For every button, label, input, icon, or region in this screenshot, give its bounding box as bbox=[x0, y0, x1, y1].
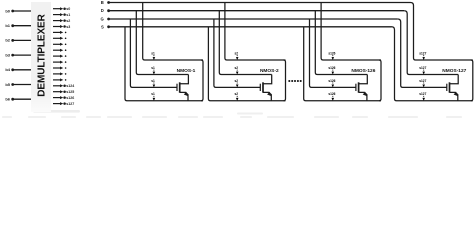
svg-text:b1: b1 bbox=[5, 23, 10, 28]
svg-text:s2: s2 bbox=[235, 51, 239, 55]
svg-text:s1: s1 bbox=[151, 66, 155, 70]
input b1 bbox=[5, 23, 31, 28]
wire B drop to NMOS-1 row bbox=[143, 3, 203, 61]
demux output tick 5 bbox=[53, 37, 66, 40]
net label s127 marker on NMOS-127 row A bbox=[419, 51, 426, 60]
svg-text:s3: s3 bbox=[66, 25, 70, 29]
demux output s126 bbox=[53, 96, 74, 100]
demux output tick 8 bbox=[53, 55, 66, 58]
demux output s127 bbox=[53, 102, 74, 106]
demux output tick 12 bbox=[53, 78, 66, 81]
net label s2 marker on NMOS-2 row A bbox=[235, 51, 239, 60]
svg-text:s0: s0 bbox=[66, 7, 70, 11]
demux output s0 bbox=[53, 7, 70, 11]
wire G drop to NMOS-127 row bbox=[398, 19, 447, 87]
demux output s125 bbox=[53, 90, 74, 94]
svg-text:D: D bbox=[101, 8, 104, 13]
net label s1 marker on NMOS-1 row A bbox=[151, 51, 155, 60]
svg-text:s127: s127 bbox=[66, 102, 74, 106]
svg-text:s2: s2 bbox=[235, 92, 239, 96]
demux output s3 bbox=[53, 25, 70, 29]
svg-text:B: B bbox=[101, 0, 104, 5]
svg-text:b5: b5 bbox=[5, 82, 10, 87]
svg-text:s126: s126 bbox=[66, 96, 74, 100]
svg-text:b2: b2 bbox=[5, 38, 10, 43]
svg-text:s126: s126 bbox=[328, 66, 335, 70]
demux output s2 bbox=[53, 19, 70, 23]
input b2 bbox=[5, 38, 31, 43]
wire D drop to NMOS-2 row bbox=[219, 11, 271, 75]
rail B / node B bbox=[101, 0, 411, 5]
wire D drop to NMOS-127 row bbox=[404, 11, 458, 75]
wire right side wrap of NMOS-126 bbox=[379, 60, 381, 101]
input b5 bbox=[5, 82, 31, 87]
svg-text:S: S bbox=[101, 24, 104, 29]
input b6 bbox=[5, 97, 31, 102]
input b3 bbox=[5, 52, 31, 57]
net label s126 marker on NMOS-126 row D bbox=[328, 66, 335, 75]
wire B drop to NMOS-127 row bbox=[411, 3, 473, 61]
transistor Q2 (NMOS-2 device) bbox=[260, 75, 271, 101]
svg-text:G: G bbox=[101, 17, 104, 22]
rail G / node G bbox=[101, 17, 398, 22]
wire G drop to NMOS-2 row bbox=[214, 19, 260, 87]
svg-text:s1: s1 bbox=[66, 13, 70, 17]
net label s2 marker on NMOS-2 row G bbox=[235, 79, 239, 88]
svg-text:s2: s2 bbox=[235, 66, 239, 70]
demux output tick 4 bbox=[53, 31, 66, 34]
svg-text:s1: s1 bbox=[151, 92, 155, 96]
net label s1 marker on NMOS-1 row G bbox=[151, 79, 155, 88]
net label s126 marker on NMOS-126 row S bbox=[328, 92, 335, 101]
transistor Q3 (NMOS-126 device) bbox=[356, 75, 367, 101]
svg-text:b4: b4 bbox=[5, 67, 10, 72]
svg-text:DEMULTIPLEXER: DEMULTIPLEXER bbox=[36, 13, 47, 96]
svg-text:s127: s127 bbox=[419, 92, 426, 96]
wire D drop to NMOS-126 row bbox=[315, 11, 367, 75]
svg-text:NMOS-126: NMOS-126 bbox=[351, 68, 375, 74]
wire G drop to NMOS-126 row bbox=[310, 19, 356, 87]
wire B drop to NMOS-126 row bbox=[321, 3, 381, 61]
transistor Q4 (NMOS-127 device) bbox=[447, 75, 458, 101]
demux output tick 10 bbox=[53, 67, 66, 70]
demultiplexer U1 bbox=[31, 2, 51, 112]
svg-text:s127: s127 bbox=[419, 66, 426, 70]
net label s127 marker on NMOS-127 row G bbox=[419, 79, 426, 88]
svg-text:s1: s1 bbox=[151, 79, 155, 83]
svg-text:s127: s127 bbox=[419, 51, 426, 55]
svg-text:NMOS-2: NMOS-2 bbox=[260, 68, 279, 74]
net label s1 marker on NMOS-1 row D bbox=[151, 66, 155, 75]
wire S drop to NMOS-127 row bbox=[392, 27, 473, 101]
demux output tick 7 bbox=[53, 49, 66, 52]
demux output tick 6 bbox=[53, 43, 66, 46]
wire S drop to NMOS-1 row bbox=[125, 27, 203, 101]
svg-text:s126: s126 bbox=[328, 92, 335, 96]
wire S drop to NMOS-2 row bbox=[208, 27, 285, 101]
ellipsis dots (continuation) bbox=[288, 80, 302, 82]
net label s126 marker on NMOS-126 row A bbox=[328, 51, 335, 60]
svg-text:NMOS-1: NMOS-1 bbox=[177, 68, 196, 74]
input b0 bbox=[5, 8, 31, 13]
svg-text:s2: s2 bbox=[66, 19, 70, 23]
transistor Q1 (NMOS-1 device) bbox=[177, 75, 188, 101]
demux output s1 bbox=[53, 13, 70, 17]
net label s127 marker on NMOS-127 row D bbox=[419, 66, 426, 75]
wire S drop to NMOS-126 row bbox=[304, 27, 381, 101]
wire right side wrap of NMOS-127 bbox=[471, 60, 473, 101]
svg-text:s1: s1 bbox=[151, 51, 155, 55]
rail D / node D bbox=[101, 8, 404, 13]
wire right side wrap of NMOS-1 bbox=[201, 60, 203, 101]
input b4 bbox=[5, 67, 31, 72]
net label s1 marker on NMOS-1 row S bbox=[151, 92, 155, 101]
svg-text:NMOS-127: NMOS-127 bbox=[442, 68, 466, 74]
wire right side wrap of NMOS-2 bbox=[284, 60, 286, 101]
demux output s124 bbox=[53, 84, 74, 88]
net label s2 marker on NMOS-2 row S bbox=[235, 92, 239, 101]
net label s2 marker on NMOS-2 row D bbox=[235, 66, 239, 75]
svg-text:s127: s127 bbox=[419, 79, 426, 83]
rail S / node S bbox=[101, 24, 391, 29]
svg-text:b6: b6 bbox=[5, 97, 10, 102]
svg-text:s124: s124 bbox=[66, 84, 74, 88]
wire B drop to NMOS-2 row bbox=[225, 3, 286, 61]
wire G drop to NMOS-1 row bbox=[130, 19, 177, 87]
net label s127 marker on NMOS-127 row S bbox=[419, 92, 426, 101]
svg-text:s125: s125 bbox=[66, 90, 74, 94]
wire D drop to NMOS-1 row bbox=[136, 11, 188, 75]
svg-text:s2: s2 bbox=[235, 79, 239, 83]
demux output tick 11 bbox=[53, 72, 66, 75]
svg-text:s126: s126 bbox=[328, 51, 335, 55]
svg-text:s126: s126 bbox=[328, 79, 335, 83]
svg-text:b3: b3 bbox=[5, 52, 10, 57]
demux output tick 9 bbox=[53, 61, 66, 64]
svg-text:b0: b0 bbox=[5, 8, 10, 13]
net label s126 marker on NMOS-126 row G bbox=[328, 79, 335, 88]
